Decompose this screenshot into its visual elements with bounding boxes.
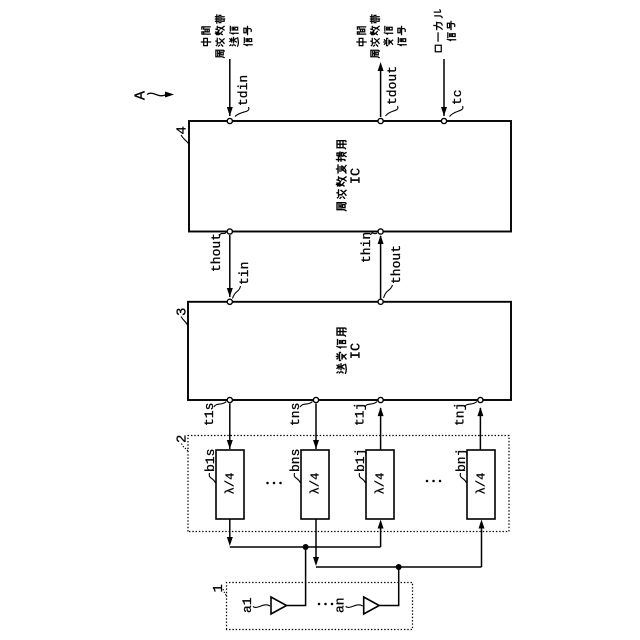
terminal thin circle on block4 (378, 229, 383, 234)
terminal tnj circle (478, 397, 483, 402)
terminal t1j circle (378, 397, 383, 402)
svg-text:a1: a1 (240, 597, 255, 613)
wire thout(4)->tin(3) (229, 235, 231, 297)
svg-text:an: an (333, 597, 348, 613)
quarter-wave line b1s (216, 450, 244, 519)
label an (333, 597, 363, 613)
terminal t1s circle (227, 397, 232, 402)
wire bus B to bnj (481, 524, 483, 567)
wire tdin input (229, 59, 231, 116)
wire tdout output (380, 70, 382, 117)
block 3: transceiver IC (188, 302, 511, 400)
terminal tc circle (441, 118, 446, 123)
svg-text:thin: thin (359, 232, 374, 263)
wire an output to bus (379, 567, 399, 606)
label b1s with leader (203, 449, 218, 483)
label tnj (452, 402, 477, 427)
terminal tns circle (313, 397, 318, 402)
junction dot on bus B (396, 564, 402, 570)
label t1j (353, 402, 378, 427)
terminal tdout circle (378, 118, 383, 123)
bus wire B (bns/bnj/an junction) (316, 566, 482, 568)
wire thout(3)->thin(4) (380, 236, 382, 299)
svg-text:4: 4 (175, 126, 191, 134)
svg-text:thout: thout (209, 233, 224, 272)
label t1s (202, 402, 227, 427)
svg-text:3: 3 (175, 308, 191, 316)
block 4: frequency conversion IC (189, 121, 511, 232)
amplifier a1 triangle (271, 597, 287, 614)
label 1 with tick (211, 584, 227, 597)
terminal thout circle on block4 (227, 229, 232, 234)
svg-text:thout: thout (389, 245, 404, 284)
dashed box 1: antenna amplifier group (227, 583, 413, 630)
label tdin (235, 75, 251, 117)
label bns with leader (288, 449, 303, 483)
marker A with wavy arrow (133, 91, 175, 100)
terminal tin circle on block3 (227, 299, 232, 304)
svg-text:1: 1 (211, 584, 227, 592)
junction dot on bus A (303, 544, 309, 550)
svg-text:b1j: b1j (353, 449, 368, 472)
label a1 (240, 597, 270, 613)
bus wire A (b1s/b1j/a1 junction) (230, 546, 381, 548)
svg-text:A: A (133, 91, 150, 100)
wire tnj (479, 408, 481, 450)
dashed box 2: quarter-wave line group (188, 436, 509, 532)
quarter-wave line bns (301, 450, 329, 519)
label tc (450, 89, 466, 116)
wire t1s (229, 404, 231, 450)
svg-text:λ/4: λ/4 (475, 473, 489, 495)
svg-text:IC: IC (350, 168, 365, 184)
svg-text:tdout: tdout (385, 66, 400, 105)
wire tc input (443, 59, 445, 116)
ellipsis between b1s and bns (266, 482, 282, 485)
svg-text:tc: tc (450, 89, 465, 105)
label tdout (385, 66, 400, 116)
label 3 with tick (175, 308, 191, 325)
quarter-wave line bnj (467, 450, 495, 519)
svg-text:λ/4: λ/4 (224, 473, 238, 495)
label thout (block3) (384, 245, 405, 298)
wire b1s to bus A (229, 519, 231, 539)
label thin (block4) (359, 232, 377, 263)
whole diagram drawn in landscape, rotated 90deg CCW to match page (133, 10, 512, 630)
svg-text:tdin: tdin (236, 75, 251, 106)
svg-text:b1s: b1s (203, 449, 218, 472)
quarter-wave line b1j (366, 450, 394, 519)
label bnj with leader (454, 449, 469, 483)
block 3 text 送受信用IC (337, 328, 365, 373)
wire tns (315, 404, 317, 450)
label tns (288, 402, 313, 427)
terminal tdin circle (227, 118, 232, 123)
label thout (block4) (209, 233, 226, 273)
svg-text:bnj: bnj (454, 449, 469, 472)
label b1j with leader (353, 449, 368, 483)
wire a1 output to bus (287, 547, 306, 606)
wire t1j (380, 408, 382, 450)
ellipsis between a1 and an (318, 603, 334, 606)
wire bus A to b1j (380, 524, 382, 547)
label: intermediate frequency band transmit signal (over tdin) (201, 15, 252, 58)
svg-text:IC: IC (350, 343, 365, 359)
svg-text:λ/4: λ/4 (374, 473, 388, 495)
label 4 with tick (175, 126, 191, 143)
svg-text:bns: bns (288, 449, 303, 472)
label 2 with tick (175, 435, 191, 451)
label: intermediate frequency band receive signal (over tdout) (357, 15, 406, 58)
ellipsis between b1j and bnj (426, 480, 442, 483)
wire bns to bus B (crosses bus A) (315, 519, 317, 559)
amplifier an triangle (364, 597, 380, 614)
svg-text:2: 2 (175, 435, 191, 443)
block 4 text 周波数変換用IC (337, 141, 365, 211)
label: local signal (over tc) (434, 10, 456, 52)
svg-text:λ/4: λ/4 (309, 473, 323, 495)
label tin (block3) (233, 262, 253, 299)
terminal thout circle on block3 (378, 299, 383, 304)
svg-text:tin: tin (237, 262, 252, 285)
